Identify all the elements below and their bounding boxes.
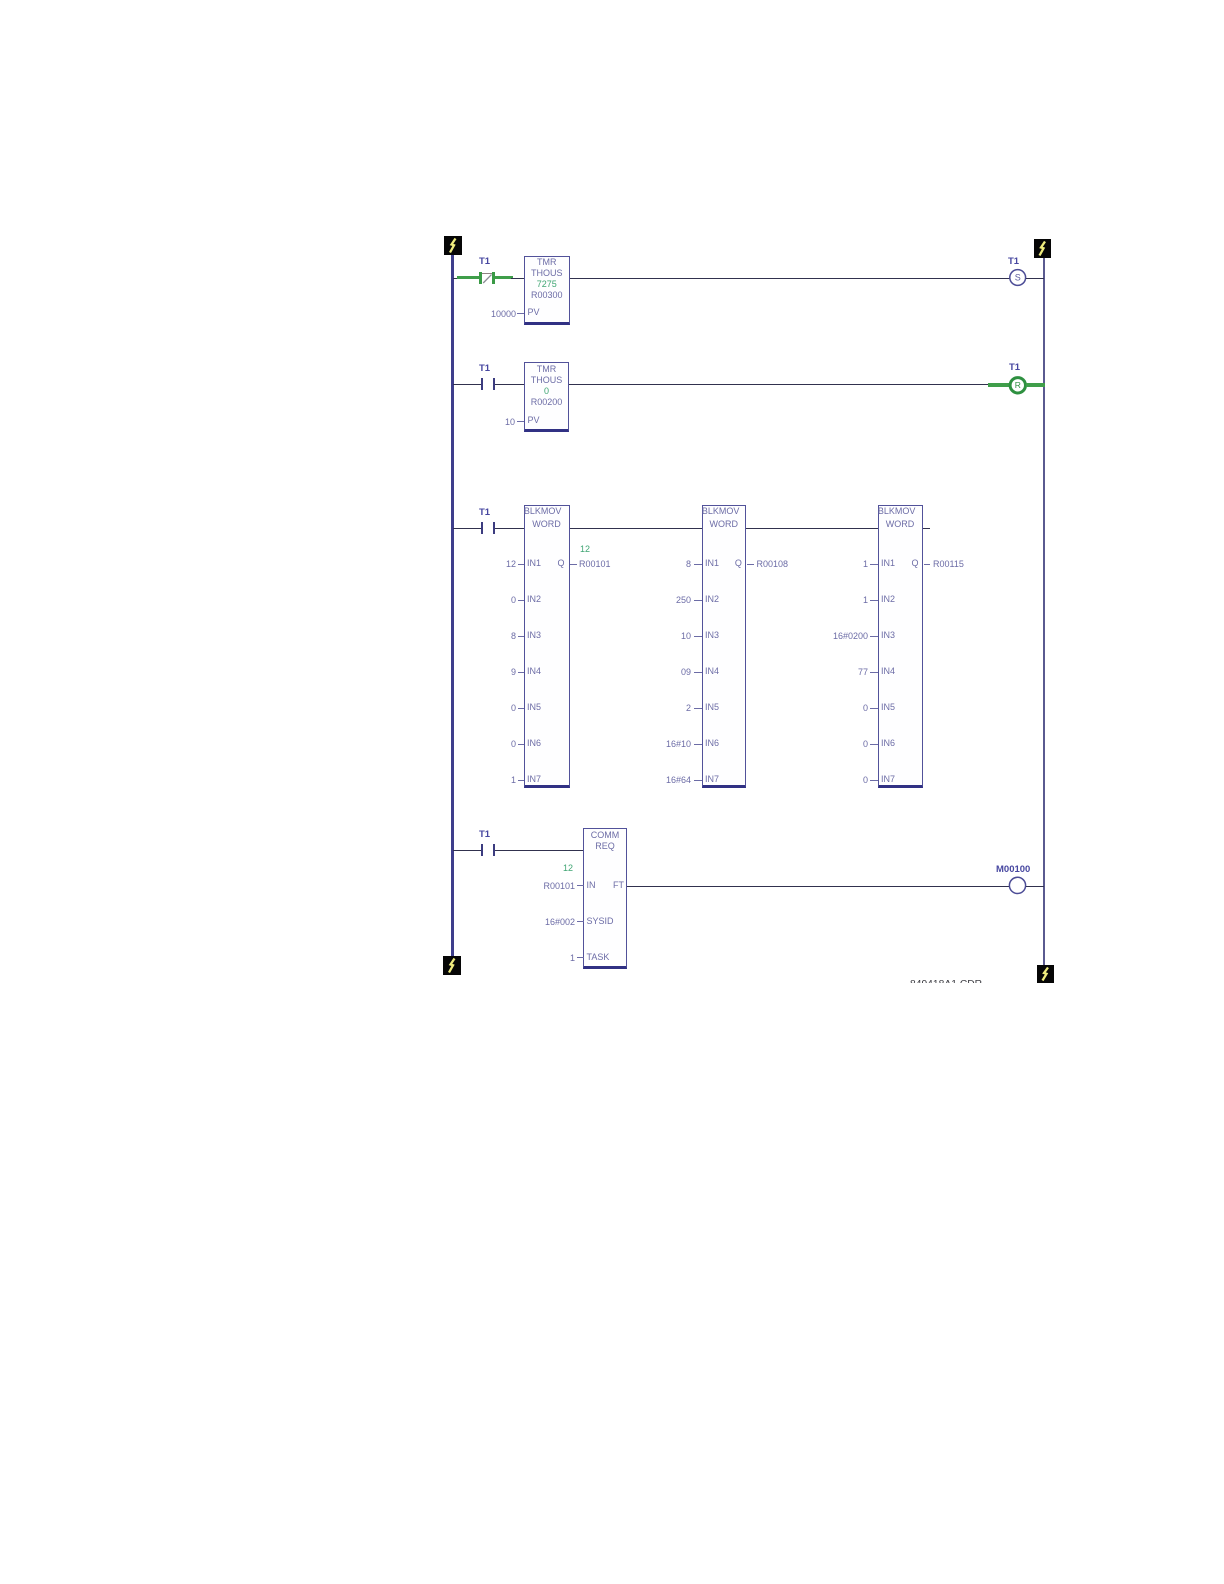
- left power rail: [451, 255, 454, 956]
- power indicator bottom-right: [1037, 965, 1054, 983]
- contact T1 NC slash: [481, 272, 494, 285]
- BLKMOV1 Q output tick: [570, 564, 577, 565]
- power indicator bottom-left: [443, 956, 461, 975]
- contact T1 NO rung4 right bar: [493, 844, 496, 856]
- svg-text:R: R: [1015, 380, 1021, 390]
- BLKMOV3 output R00115: [933, 559, 964, 569]
- BLKMOV2 input values: [651, 559, 691, 569]
- block move BLKMOV WORD #2: [702, 505, 747, 788]
- contact T1 NO left bar: [481, 378, 484, 390]
- contact T1 rung2 label: [479, 364, 490, 374]
- PV tick: [517, 313, 524, 314]
- timer block TMR THOUS R00200: [524, 362, 569, 432]
- rung 3: wire BLKMOV2 to BLKMOV3: [746, 528, 878, 529]
- COMMREQ TASK value 1: [531, 953, 575, 963]
- rung 1: wire into TMR block: [511, 278, 524, 279]
- contact T1 NC top crossbar: [482, 273, 493, 275]
- right power rail: [1043, 258, 1045, 965]
- reset coil T1 (R) energized: [1007, 375, 1029, 396]
- svg-text:S: S: [1015, 273, 1021, 283]
- BLKMOV1 input values: [486, 559, 516, 569]
- contact T1 (normally closed, energized) label: [479, 257, 490, 267]
- timer block TMR THOUS R00300: [524, 256, 570, 325]
- coil T1 label: [1008, 257, 1019, 267]
- BLKMOV3 Q output tick: [924, 564, 931, 565]
- value 10 to PV: [483, 417, 515, 427]
- contact T1 NO rung3 left bar: [481, 522, 484, 534]
- contact T1 NO rung3 right bar: [493, 522, 496, 534]
- set coil T1 (S): [1008, 268, 1028, 288]
- rung 2: wire from TMR to coil: [569, 384, 989, 385]
- contact T1 rung3 label: [479, 508, 490, 518]
- rung 2: wire from left rail: [453, 384, 481, 385]
- contact T1 NO right bar: [493, 378, 496, 390]
- BLKMOV1 output R00101: [579, 559, 611, 569]
- rung 1: wire coil to right rail: [1026, 278, 1044, 279]
- BLKMOV3 input values: [818, 559, 868, 569]
- rung 1: energized wire before contact T1: [457, 276, 480, 279]
- contact T1 NC right bar: [492, 272, 495, 285]
- rung 1: wire stub from left rail: [453, 278, 460, 279]
- BLKMOV2 output R00108: [757, 559, 789, 569]
- rung 2: energized wire coil to right rail: [1026, 383, 1045, 386]
- rung 3: wire from left rail: [453, 528, 481, 529]
- comm request block COMM REQ: [583, 828, 627, 969]
- rung 2: wire contact to TMR: [495, 384, 524, 385]
- coil T1 rung2 label: [1009, 363, 1020, 373]
- rung 3: wire BLKMOV1 to BLKMOV2: [570, 528, 703, 529]
- rung 4: wire contact to COMMREQ: [495, 850, 584, 851]
- COMMREQ IN current value 12: [563, 863, 573, 873]
- block move BLKMOV WORD #1: [524, 505, 570, 788]
- contact T1 NC left bar: [479, 272, 482, 285]
- rung 3: wire contact to BLKMOV1: [495, 528, 524, 529]
- rung 1: energized wire after contact: [495, 276, 513, 279]
- coil M00100 label: [996, 865, 1030, 875]
- contact T1 rung4 label: [479, 830, 490, 840]
- BLKMOV1 Q current value 12: [580, 544, 590, 554]
- power indicator top-left: [444, 236, 462, 255]
- rung 4: wire from left rail: [453, 850, 481, 851]
- power indicator top-right: [1034, 239, 1051, 258]
- block move BLKMOV WORD #3: [878, 505, 923, 788]
- COMMREQ IN value R00101: [531, 881, 575, 891]
- rung 4: wire coil to right rail: [1026, 886, 1045, 887]
- rung 4: wire FT to coil: [627, 886, 1009, 887]
- COMMREQ SYSID value 16#002: [531, 917, 575, 927]
- rung 3: stub wire after BLKMOV3: [923, 528, 930, 529]
- rung 1: wire from TMR to coil: [570, 278, 1010, 279]
- contact T1 NO rung4 left bar: [481, 844, 484, 856]
- rung 2: energized wire into coil: [988, 383, 1009, 386]
- PV tick rung2: [517, 421, 525, 422]
- value 10000 to PV: [483, 309, 516, 319]
- output coil M00100: [1008, 876, 1028, 896]
- drawing number 849418A1.CDR: [910, 974, 985, 983]
- BLKMOV2 Q output tick: [747, 564, 754, 565]
